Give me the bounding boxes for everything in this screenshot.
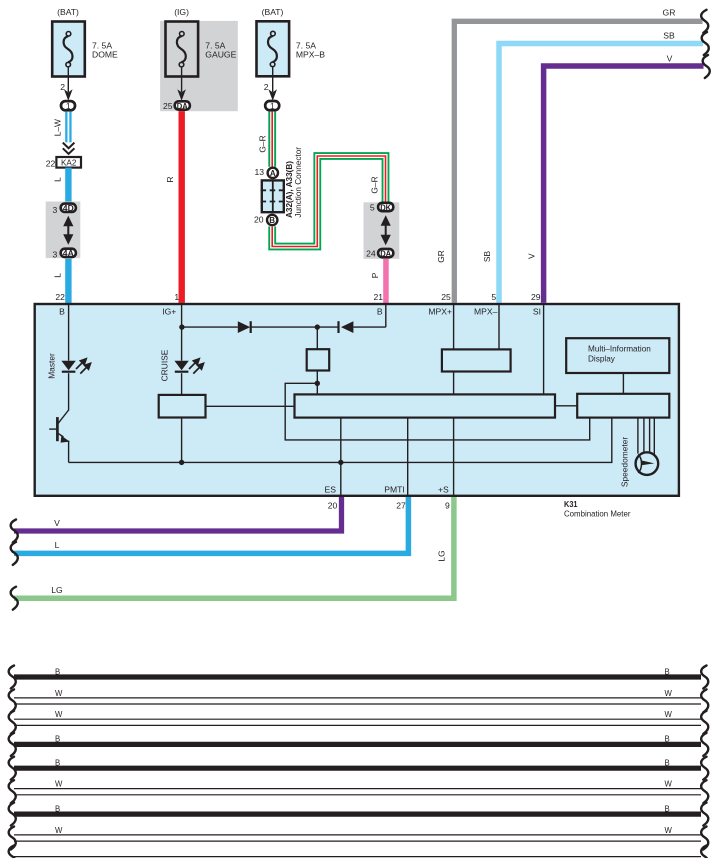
LED2 CRUISE [174,361,188,372]
pin 5 MPX- internal wire [498,305,500,349]
svg-text:1: 1 [66,101,71,111]
wire G-R routed to DK [272,156,385,247]
svg-text:W: W [55,780,63,789]
svg-text:W: W [665,710,673,719]
svg-text:W: W [665,826,673,835]
svg-text:DA: DA [177,101,188,111]
svg-text:LG: LG [437,550,447,561]
svg-text:W: W [55,710,63,719]
svg-text:5: 5 [370,202,375,212]
svg-text:P: P [370,272,380,278]
speedometer wires [637,418,639,454]
pin 1 IG+ internal wire [181,305,183,361]
svg-text:25: 25 [441,292,451,302]
svg-text:MPX–: MPX– [474,307,498,317]
diode D1 [238,321,251,333]
svg-text:ES: ES [325,485,337,495]
svg-text:SI: SI [533,307,541,317]
svg-text:Junction Connector: Junction Connector [294,147,303,218]
wire LED1 to transistor [68,373,70,410]
svg-text:V: V [526,253,536,259]
svg-text:DK: DK [380,202,392,212]
double arrow between DK and DA [381,215,391,245]
wire V (violet) pin 20 [14,497,342,531]
wire break squiggle [703,55,710,78]
resistor R1 [159,395,206,418]
wire SB (sky blue) [499,44,703,303]
transistor Q1 collector [58,410,69,424]
svg-text:GR: GR [663,8,676,18]
svg-text:V: V [54,518,60,528]
fuse F1 7.5A DOME [52,22,118,77]
diode D2 [339,321,354,333]
svg-text:2: 2 [60,82,65,92]
junction connector pin B [267,215,277,225]
svg-text:22: 22 [55,292,65,302]
svg-text:Multi–Information: Multi–Information [588,345,651,354]
wire B 4 [9,733,709,756]
wire LG (light green) pin 9 [14,497,454,598]
svg-text:4A: 4A [63,248,74,258]
wire LED2 to resistor [181,373,183,395]
svg-text:B: B [665,804,670,813]
svg-text:1: 1 [270,101,275,111]
svg-text:W: W [665,689,673,698]
svg-text:SB: SB [663,31,675,41]
svg-text:G–R: G–R [258,135,268,152]
svg-text:(BAT): (BAT) [262,7,284,17]
arrow fuse to connector [64,67,73,101]
svg-text:3: 3 [53,249,58,259]
svg-text:L–W: L–W [53,119,63,136]
svg-text:L: L [53,177,63,182]
svg-text:1: 1 [174,292,179,302]
pin 25 MPX+ internal wire [453,305,455,349]
svg-text:G–R: G–R [370,176,380,193]
svg-text:B: B [665,759,670,768]
svg-text:MPX–B: MPX–B [296,50,325,60]
wire break squiggle [11,587,18,610]
wire break squiggle [702,32,709,55]
junction dot bus/ES [338,460,343,465]
junction connector A32(A), A33(B) [261,180,285,212]
connector oval DK [378,202,393,212]
svg-text:DA: DA [380,248,391,258]
MPX transceiver box [442,349,511,371]
svg-text:B: B [55,759,60,768]
svg-text:+S: +S [438,485,449,495]
svg-text:GAUGE: GAUGE [205,50,236,60]
connector oval 1 [265,101,279,111]
pin 22 internal wire [68,305,70,361]
connector oval 1 [61,101,75,111]
svg-text:SB: SB [482,251,492,263]
svg-text:PMTI: PMTI [384,485,405,495]
wire break squiggle [701,10,708,33]
wire W 2 [9,689,709,713]
wire B 5 [9,757,709,780]
svg-text:B: B [59,307,65,317]
wire L-W (blue/white) [65,112,71,143]
svg-text:B: B [55,804,60,813]
wire IG+ to diode D1 [182,326,238,328]
wire B 7 [9,803,709,826]
wire break squiggle [11,542,18,565]
fuse F3 7.5A MPX-B [257,21,326,76]
svg-text:3: 3 [53,205,58,215]
svg-text:21: 21 [373,292,383,302]
box U2 (small square) [307,349,330,370]
wire B 1 [9,666,709,689]
arrow fuse to connector [268,67,277,101]
arrow fuse to connector [177,67,186,101]
svg-text:DOME: DOME [92,50,118,60]
wire D2 to pin 21 [353,326,385,328]
wire MID to IC2 [622,373,624,394]
svg-text:L: L [55,540,60,550]
svg-text:Combination Meter: Combination Meter [564,508,631,518]
wire PMTI pin [407,418,409,496]
wire V (violet) [544,66,704,303]
svg-text:W: W [55,689,63,698]
connector oval 4D [61,203,76,213]
wire +S pin [453,418,455,496]
junction dot diode node [315,324,320,329]
shaded connector block 4D/4A [46,202,81,259]
wire resistor to ground bus [181,418,183,463]
chevron splice arrows [63,143,75,154]
meter box K31 [35,304,679,496]
wire W 8 [9,826,709,850]
svg-text:MPX+: MPX+ [428,307,452,317]
svg-text:4D: 4D [63,203,74,213]
wire L (blue) pin 27 [14,497,408,553]
junction dot IG+ node [179,324,184,329]
wire node to box U2 [316,327,318,349]
transistor Q1 emitter wire [68,441,70,463]
svg-text:9: 9 [445,501,450,511]
Multi-Information Display box [566,338,669,373]
svg-text:20: 20 [328,501,338,511]
svg-text:Master: Master [47,353,57,379]
wire D1 to node [252,326,338,328]
svg-text:B: B [377,307,383,317]
wire GR (gray) [454,21,702,303]
connector oval 4A [61,248,76,258]
wire L (blue) [65,168,71,202]
svg-text:W: W [665,780,673,789]
connector KA2 [56,157,81,168]
wire break squiggle [11,520,18,543]
transistor Q1 [49,417,70,443]
svg-text:(BAT): (BAT) [57,7,79,17]
svg-text:24: 24 [366,249,376,259]
svg-text:KA2: KA2 [61,159,77,168]
pin 21 internal wire [385,305,387,327]
fuse F2 7.5A GAUGE [166,22,237,77]
svg-text:27: 27 [396,501,406,511]
svg-text:20: 20 [254,215,264,225]
wire L (blue) to meter [65,259,71,303]
wire W 9 (partial at page edge) [9,846,709,858]
svg-text:B: B [55,735,60,744]
wire box U2 to node B2 [316,371,318,395]
svg-text:B: B [665,735,670,744]
svg-text:CRUISE: CRUISE [160,349,170,381]
svg-text:22: 22 [46,159,56,169]
connector oval DA [175,101,190,111]
pin 29 SI internal wire [543,305,545,394]
LED1 Master [61,361,75,372]
svg-text:A: A [270,169,276,178]
wire W 3 [9,710,709,734]
shaded connector block DK/DA [364,202,400,258]
speedometer M1 [636,452,659,475]
svg-text:W: W [55,826,63,835]
svg-text:(IG): (IG) [174,7,189,17]
svg-text:Speedometer: Speedometer [620,437,630,487]
svg-text:29: 29 [531,292,541,302]
svg-text:L: L [53,273,63,278]
wire resistor R1 to IC1 [206,405,295,407]
wire W 6 [9,780,709,804]
svg-text:Display: Display [588,354,616,363]
svg-text:B: B [665,667,670,676]
wire P (pink) [383,259,389,303]
svg-text:2: 2 [264,82,269,92]
svg-text:B: B [55,667,60,676]
IC1 (long box) [295,394,556,417]
ground bus wire [69,418,612,463]
IC2 (right box) [577,394,669,418]
svg-text:5: 5 [491,292,496,302]
svg-text:25: 25 [163,101,173,111]
wire R (red) [179,111,185,303]
junction connector pin A [268,168,278,178]
double arrow between 4D and 4A [63,216,73,245]
feedback wire node B2 to IC2 [285,383,590,440]
wire IC1 to IC2 [555,405,577,407]
svg-text:GR: GR [436,250,446,263]
svg-text:13: 13 [254,167,264,177]
wire G-R vertical (green/red stripe) [268,112,276,167]
shaded block [160,21,238,111]
wire ES pin [340,418,342,496]
connector oval DA [378,248,393,258]
wire MPX box to IC1 [453,372,455,395]
svg-text:V: V [667,53,673,63]
junction dot bus/resistor [179,460,184,465]
svg-text:IG+: IG+ [162,307,176,317]
svg-text:LG: LG [51,585,63,595]
junction dot node B2 [315,381,320,386]
svg-text:A32(A), A33(B): A32(A), A33(B) [285,161,294,218]
svg-text:R: R [165,176,175,182]
svg-text:B: B [269,216,275,225]
